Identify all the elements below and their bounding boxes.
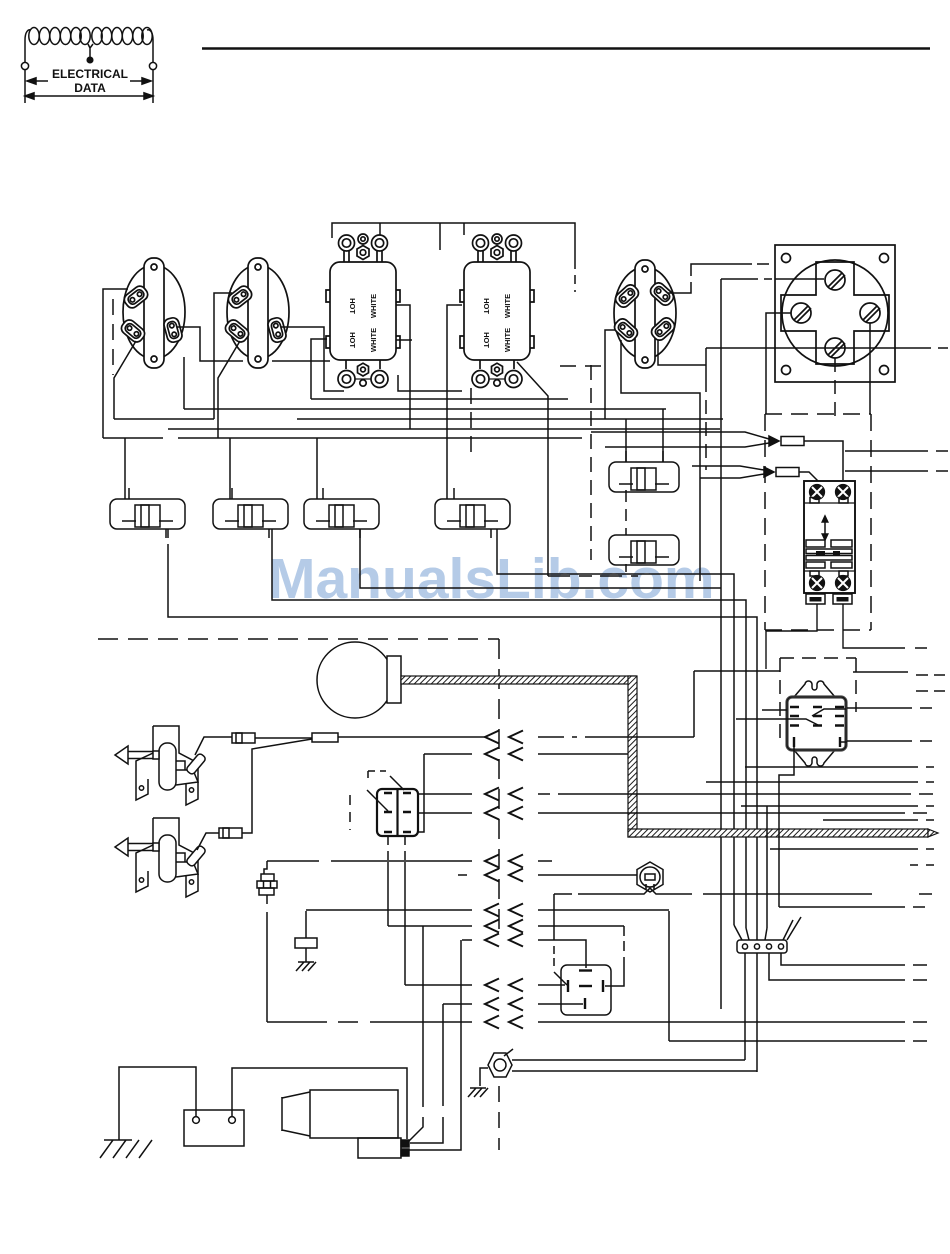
svg-text:HOT: HOT	[482, 298, 491, 314]
svg-text:WHITE: WHITE	[503, 294, 512, 318]
svg-text:DATA: DATA	[74, 81, 106, 95]
svg-text:HOT: HOT	[482, 332, 491, 348]
svg-text:WHITE: WHITE	[503, 328, 512, 352]
svg-text:ManualsLib.com: ManualsLib.com	[268, 547, 715, 611]
svg-text:ELECTRICAL: ELECTRICAL	[52, 67, 128, 81]
svg-text:WHITE: WHITE	[369, 328, 378, 352]
svg-text:WHITE: WHITE	[369, 294, 378, 318]
svg-text:HOT: HOT	[348, 298, 357, 314]
svg-text:HOT: HOT	[348, 332, 357, 348]
